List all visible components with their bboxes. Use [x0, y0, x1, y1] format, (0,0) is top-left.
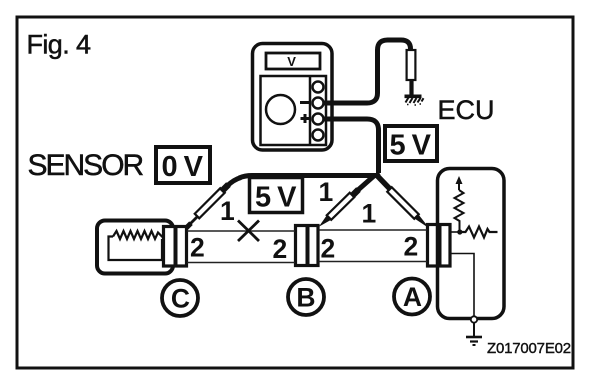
sensor body	[97, 221, 173, 274]
probe at C: collet	[222, 185, 229, 192]
svg-text:1: 1	[362, 199, 377, 229]
ground pass-through circle	[471, 316, 477, 322]
svg-text:SENSOR: SENSOR	[28, 149, 144, 182]
connector B divider	[306, 226, 310, 266]
svg-text:2: 2	[190, 233, 205, 263]
wire: minus lead to ground probe	[324, 40, 411, 103]
ECU body	[438, 169, 505, 319]
connector C body	[164, 227, 187, 267]
plus sign	[301, 114, 310, 123]
svg-text:5 V: 5 V	[255, 182, 297, 214]
value box 5 V (sensor side)	[250, 178, 303, 213]
harness wire C-B top	[187, 230, 295, 232]
svg-text:A: A	[403, 282, 422, 312]
probe at B: body	[327, 193, 354, 220]
ECU ground wire	[450, 254, 474, 319]
svg-text:1: 1	[319, 177, 334, 207]
wire: horizontal bus from probe C to junction	[239, 176, 377, 179]
value box 5 V (ECU side)	[385, 126, 437, 161]
terminal 4	[313, 130, 324, 141]
svg-text:Fig. 4: Fig. 4	[27, 30, 92, 60]
break X mark	[238, 221, 259, 242]
body ground contact bar	[405, 95, 422, 99]
svg-text:ECU: ECU	[438, 95, 495, 125]
probe at C: body	[195, 188, 225, 218]
multimeter U1 body	[253, 44, 333, 151]
connector C divider	[174, 227, 178, 267]
probe P- needle	[409, 80, 413, 95]
wire connector A to node	[450, 231, 460, 233]
junction node	[375, 173, 381, 179]
svg-text:2: 2	[273, 234, 288, 264]
probe at A: tail wire from junction	[377, 176, 390, 190]
node A circle	[394, 279, 430, 315]
node C circle	[162, 280, 198, 316]
terminal 3 (plus)	[313, 114, 324, 125]
minus sign	[300, 101, 309, 104]
probe at A: tip	[415, 215, 430, 229]
probe at C: needle	[191, 216, 199, 224]
hatch dots	[407, 104, 421, 105]
ground symbol	[473, 323, 475, 337]
svg-text:Z017007E02: Z017007E02	[487, 340, 571, 357]
harness wire B-A bottom	[319, 261, 428, 263]
connector B body	[296, 226, 319, 266]
node dot	[457, 229, 462, 234]
harness wire B-A top	[319, 229, 428, 231]
value box 0 V	[156, 147, 210, 183]
svg-text:V: V	[287, 54, 296, 69]
multimeter display	[266, 53, 320, 69]
probe at C: tail wire	[227, 178, 241, 187]
probe P- body (vertical)	[407, 50, 416, 80]
svg-text:5 V: 5 V	[390, 130, 432, 162]
multimeter dial	[266, 95, 295, 124]
connector A body	[428, 225, 451, 267]
sensor resistor zigzag	[113, 231, 164, 239]
node B circle	[288, 279, 324, 315]
ECU supply arrow	[456, 176, 463, 184]
multimeter panel	[261, 76, 327, 145]
multimeter terminal strip	[309, 76, 312, 145]
resistor R2 (horizontal zigzag)	[460, 227, 498, 238]
terminal 2 (minus)	[313, 98, 324, 109]
svg-text:1: 1	[220, 196, 235, 226]
resistor R1 (pull-up, vertical zigzag)	[455, 190, 464, 232]
probe at B: tip	[319, 215, 331, 227]
svg-text:0 V: 0 V	[162, 151, 204, 183]
wire: plus lead down to probe junction	[324, 119, 379, 173]
body ground hatch	[406, 98, 424, 104]
svg-text:2: 2	[321, 234, 336, 264]
terminal 1	[313, 82, 324, 93]
svg-text:B: B	[296, 283, 315, 313]
harness wire C-B bottom	[187, 262, 295, 264]
probe at B: collet	[352, 190, 359, 197]
probe at A: body	[387, 187, 419, 219]
probe at B: tail wire from junction	[358, 175, 375, 190]
probe at C: tip	[184, 223, 191, 230]
svg-text:C: C	[171, 284, 190, 314]
connector A divider	[438, 225, 442, 267]
sensor resistor loop	[109, 237, 163, 261]
svg-text:2: 2	[404, 232, 419, 262]
